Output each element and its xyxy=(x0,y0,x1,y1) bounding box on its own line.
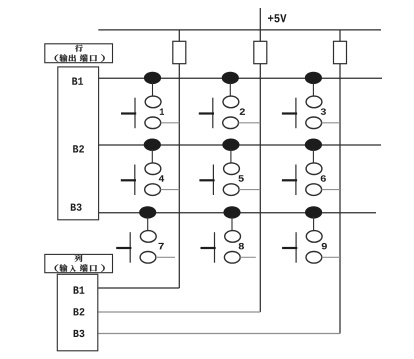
pin B3 (input port) xyxy=(74,330,85,337)
wire key 3 to column 3 xyxy=(322,122,340,124)
wire column 1 to input port pin B1 xyxy=(98,287,179,289)
wire column 3 lower xyxy=(339,64,341,334)
wire column 2 lower xyxy=(259,64,261,312)
pin B1 (input port) xyxy=(74,286,85,293)
wire column 1 upper xyxy=(178,30,180,41)
pin B2 (input port) xyxy=(74,308,85,315)
wire +5V rail xyxy=(98,29,381,31)
wire key 9 to column 3 xyxy=(322,256,340,258)
wire row B2 xyxy=(98,144,381,146)
wire column 2 upper xyxy=(259,30,261,41)
wire key 6 to column 3 xyxy=(322,189,340,191)
resistor R1 xyxy=(173,41,186,63)
resistor R2 xyxy=(254,41,267,63)
wire column 3 upper xyxy=(339,30,341,41)
pushbutton S1 (key 1) xyxy=(121,72,164,129)
wire key 1 to column 1 xyxy=(161,122,180,124)
wire key 5 to column 2 xyxy=(239,189,260,191)
wire +5V stub xyxy=(259,8,261,30)
input port block (column sense) xyxy=(57,274,98,351)
output port block (row drive) xyxy=(58,67,99,220)
label box 行（输出端口） xyxy=(45,44,113,63)
pushbutton S7 (key 7) xyxy=(116,206,164,263)
label box 列（输入端口） xyxy=(45,254,113,272)
wire key 7 to column 1 xyxy=(156,256,175,258)
pushbutton S2 (key 2) xyxy=(199,72,245,129)
pushbutton S9 (key 9) xyxy=(282,206,327,263)
wire row B3 xyxy=(98,212,376,214)
pushbutton S6 (key 6) xyxy=(282,139,326,196)
wire row B1 xyxy=(98,77,382,79)
pushbutton S3 (key 3) xyxy=(282,72,326,129)
pin B2 (output port) xyxy=(73,145,84,152)
wire key 4 to column 1 xyxy=(161,189,180,191)
pin B3 (output port) xyxy=(71,204,82,211)
pushbutton S8 (key 8) xyxy=(201,206,245,263)
wire column 3 to input port pin B3 xyxy=(98,333,340,335)
label +5V xyxy=(268,14,287,22)
resistor R3 xyxy=(334,41,347,63)
wire column 2 to input port pin B2 xyxy=(98,311,260,313)
wire column 1 lower xyxy=(178,64,180,288)
pushbutton S5 (key 5) xyxy=(199,139,243,196)
pushbutton S4 (key 4) xyxy=(121,139,164,196)
pin B1 (output port) xyxy=(72,78,83,85)
wire key 8 to column 2 xyxy=(240,256,256,258)
wire key 2 to column 2 xyxy=(239,122,261,124)
